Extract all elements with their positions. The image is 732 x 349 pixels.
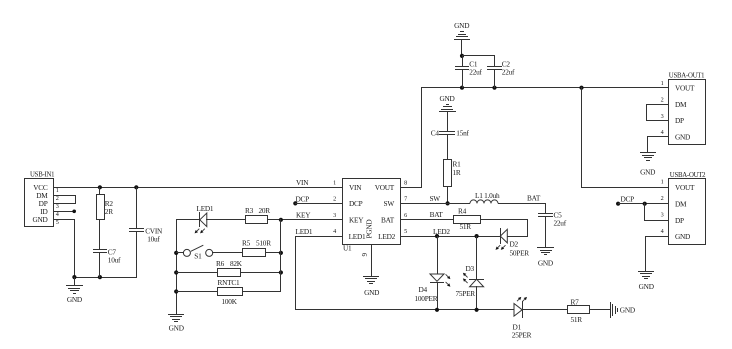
svg-text:1: 1 [661,179,664,186]
net label VIN [296,178,309,187]
svg-text:4: 4 [661,129,664,136]
svg-text:LED1: LED1 [349,232,366,241]
svg-text:BAT: BAT [430,210,444,219]
wire D4 branch [437,236,439,274]
node KEY bus top [279,218,283,222]
svg-text:DP: DP [675,116,684,125]
svg-text:VOUT: VOUT [375,183,395,192]
ground C5 GND [537,248,554,268]
resistor RNTC1 [176,278,281,306]
wire OUT1 GND pin [647,136,669,153]
svg-text:DP: DP [675,216,684,225]
wire DCP stub OUT2 [616,195,669,206]
svg-text:S1: S1 [194,251,202,260]
wire GND pin5 [53,219,75,278]
svg-text:3: 3 [661,211,664,218]
wire LED1 net [295,227,342,310]
svg-text:22uf: 22uf [502,68,515,77]
resistor R3 [245,206,270,223]
switch S1 [176,245,213,260]
wire OUT2 DM-DP tie [644,203,669,221]
svg-text:GND: GND [639,282,654,291]
svg-text:75PER: 75PER [456,289,476,298]
LED D4 [415,274,451,310]
wire BAT pin6 [400,210,453,219]
svg-text:BAT: BAT [527,193,541,202]
svg-text:LED2: LED2 [378,232,395,241]
svg-text:22uf: 22uf [554,218,567,227]
capacitor C1 [455,59,482,88]
svg-text:510R: 510R [256,238,271,247]
svg-text:L1 1.0uh: L1 1.0uh [475,191,500,200]
svg-text:2: 2 [661,195,664,202]
svg-text:U1: U1 [343,244,352,253]
wire OUT2 VOUT drop [581,87,669,188]
wire VCC/VIN rail [53,187,342,189]
wire D1 to R7 [522,309,567,311]
U1 pin numbers [333,179,407,256]
svg-text:USBA-OUT2: USBA-OUT2 [670,172,706,179]
svg-text:D4: D4 [419,285,428,294]
svg-text:R4: R4 [458,207,467,216]
svg-text:100PER: 100PER [415,294,438,303]
svg-text:KEY: KEY [349,216,364,225]
svg-text:LED1: LED1 [296,227,313,236]
resistor R1 [444,160,462,206]
wire VOUT riser [400,87,422,188]
wire cap header [460,54,495,67]
ground PGND [363,277,379,298]
svg-text:GND: GND [675,232,690,241]
svg-text:VOUT: VOUT [675,183,695,192]
connector USBA-OUT2 [669,172,707,244]
ground input GND [66,277,83,304]
wire SW net [400,194,470,204]
svg-text:4: 4 [661,228,664,235]
ground R7 GND [611,302,635,318]
svg-text:7: 7 [404,196,407,203]
resistor R6 [176,259,283,277]
svg-text:DM: DM [675,100,687,109]
svg-text:100K: 100K [222,297,238,306]
node CVIN top [134,185,138,189]
svg-text:8: 8 [404,179,407,186]
svg-text:DCP: DCP [621,195,635,204]
svg-text:25PER: 25PER [512,331,532,340]
svg-text:D2: D2 [510,240,519,249]
svg-text:6: 6 [404,212,407,219]
svg-text:22uf: 22uf [469,68,482,77]
ground OUT1 GND [640,153,656,177]
resistor R2 [97,187,114,250]
svg-text:GND: GND [454,21,469,30]
svg-text:5: 5 [404,228,407,235]
capacitor C2 [487,59,515,88]
node R2 top [98,185,102,189]
wire DM-DP tie [53,195,76,204]
svg-text:GND: GND [538,259,553,268]
svg-text:3: 3 [333,212,336,219]
svg-text:1: 1 [661,80,664,87]
IC U1 [343,179,401,253]
ground switch GND [168,315,184,333]
svg-text:1: 1 [333,179,336,186]
svg-text:3: 3 [661,113,664,120]
svg-text:2R: 2R [105,207,113,216]
inductor L1 [470,191,500,204]
svg-text:USBA-OUT1: USBA-OUT1 [669,73,705,80]
svg-text:BAT: BAT [381,216,395,225]
wire D3 branch [476,236,478,280]
svg-text:VIN: VIN [296,178,309,187]
svg-text:50PER: 50PER [510,249,530,258]
connector USBA-OUT1 [669,73,706,145]
svg-text:82K: 82K [230,259,243,268]
svg-text:DM: DM [675,199,687,208]
svg-text:GND: GND [67,295,82,304]
svg-text:20R: 20R [259,206,271,215]
wire OUT1 DM-DP tie [646,104,669,121]
wire BAT net [498,193,546,214]
svg-text:GND: GND [169,324,184,333]
svg-text:10uf: 10uf [108,256,121,265]
svg-text:R5: R5 [242,238,251,247]
resistor R5 [212,238,283,256]
svg-text:LED1: LED1 [197,204,214,213]
capacitor CVIN [129,187,163,278]
ground top GND [454,21,470,56]
svg-text:2: 2 [333,196,336,203]
svg-text:GND: GND [439,94,454,103]
resistor R4 [454,207,481,232]
svg-text:D3: D3 [466,264,475,273]
ground C4 GND [439,94,456,132]
LED D2 [496,228,530,258]
wire ID stub [53,210,76,214]
svg-text:R3: R3 [245,206,254,215]
svg-text:DCP: DCP [349,199,363,208]
net label KEY [296,211,311,220]
svg-text:RNTC1: RNTC1 [218,278,240,287]
capacitor C5 [538,210,567,248]
resistor R7 [568,297,612,324]
svg-text:DCP: DCP [296,194,310,203]
svg-text:GND: GND [640,168,655,177]
svg-text:15nf: 15nf [456,128,469,137]
USBA-OUT2 pin numbers [661,179,664,235]
svg-text:10uf: 10uf [147,235,160,244]
USB-IN1 pin numbers [56,187,59,226]
wire OUT2 GND pin [645,236,669,271]
wire KEY row [176,219,342,221]
svg-text:2: 2 [661,96,664,103]
svg-text:GND: GND [675,133,690,142]
wire DCP stub [293,194,342,205]
svg-text:SW: SW [430,194,441,203]
wire VOUT rail [421,86,669,90]
svg-text:GND: GND [32,215,47,224]
svg-text:KEY: KEY [296,211,311,220]
capacitor C7 [93,248,121,279]
wire left bus [174,219,178,315]
LED D3 [456,264,485,310]
ground OUT2 GND [638,272,654,292]
svg-text:R6: R6 [216,259,225,268]
svg-text:GND: GND [364,288,379,297]
LED LED1 [195,204,214,234]
svg-text:VIN: VIN [349,183,362,192]
svg-text:R7: R7 [571,297,580,306]
svg-text:C4: C4 [431,128,440,137]
svg-text:USB-IN1: USB-IN1 [30,172,54,179]
USBA-OUT1 pin numbers [661,80,664,136]
wire LED1 bottom bus [295,308,514,312]
svg-text:PGND: PGND [365,220,374,239]
connector USB-IN1 [25,172,55,227]
svg-text:GND: GND [620,306,635,315]
wire LED2 net [400,227,501,238]
svg-text:4: 4 [333,228,336,235]
svg-text:VOUT: VOUT [675,83,695,92]
svg-text:51R: 51R [571,315,583,324]
LED D1 [512,297,532,340]
wire right bus [280,219,282,292]
svg-text:51R: 51R [460,222,472,231]
wire input ground bus [72,275,137,279]
svg-text:SW: SW [384,199,395,208]
svg-text:1R: 1R [453,168,461,177]
wire PGND pin9 [371,244,373,277]
wire R4 to D2 [480,219,528,237]
capacitor C4 [431,128,470,159]
